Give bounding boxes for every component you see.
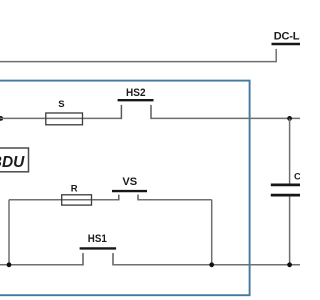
wire DC-LS stub xyxy=(275,49,277,62)
fuse S box xyxy=(46,113,83,125)
node bottom right xyxy=(287,262,292,267)
capacitor C1 top plate xyxy=(271,184,300,187)
switch VS bar xyxy=(112,190,147,192)
wire mid branch right xyxy=(138,199,212,201)
svg-text:BDU: BDU xyxy=(0,154,25,171)
wire branch A right xyxy=(151,117,300,119)
svg-text:S: S xyxy=(58,99,64,110)
label box BDU xyxy=(0,148,29,172)
switch HS1 right stub xyxy=(112,253,114,265)
svg-text:HS1: HS1 xyxy=(88,233,107,245)
wire capacitor top lead xyxy=(289,118,291,183)
switch HS2 left stub xyxy=(120,105,122,119)
svg-text:DC-LS: DC-LS xyxy=(274,30,300,42)
svg-text:C1: C1 xyxy=(294,172,300,183)
disconnect DC-LS bar xyxy=(272,43,301,45)
svg-text:VS: VS xyxy=(122,176,137,188)
wire bottom bus right xyxy=(113,264,300,266)
wire mid branch riser right xyxy=(211,200,213,265)
switch HS1 bar xyxy=(80,247,117,249)
svg-text:HS2: HS2 xyxy=(126,87,146,99)
switch VS left stub xyxy=(118,195,120,201)
wire capacitor bottom lead xyxy=(289,196,291,264)
capacitor C1 bottom plate xyxy=(271,194,300,197)
wire branch A left xyxy=(0,117,121,119)
wire mid branch xyxy=(9,199,119,201)
node capacitor top xyxy=(287,116,292,121)
wire top bus xyxy=(0,61,276,63)
blue enclosure box (battery unit outline) xyxy=(0,81,250,296)
node A (left edge, branch A) xyxy=(0,116,3,121)
node bottom left xyxy=(7,262,12,267)
node bottom mid xyxy=(209,262,214,267)
wire bottom bus left xyxy=(0,264,83,266)
resistor R box xyxy=(62,195,92,205)
wire mid branch riser left xyxy=(8,200,10,265)
switch HS2 bar xyxy=(118,99,154,101)
svg-text:R: R xyxy=(71,183,78,194)
switch VS right stub xyxy=(137,195,139,201)
switch HS2 right stub xyxy=(150,105,152,119)
switch HS1 left stub xyxy=(82,253,84,265)
